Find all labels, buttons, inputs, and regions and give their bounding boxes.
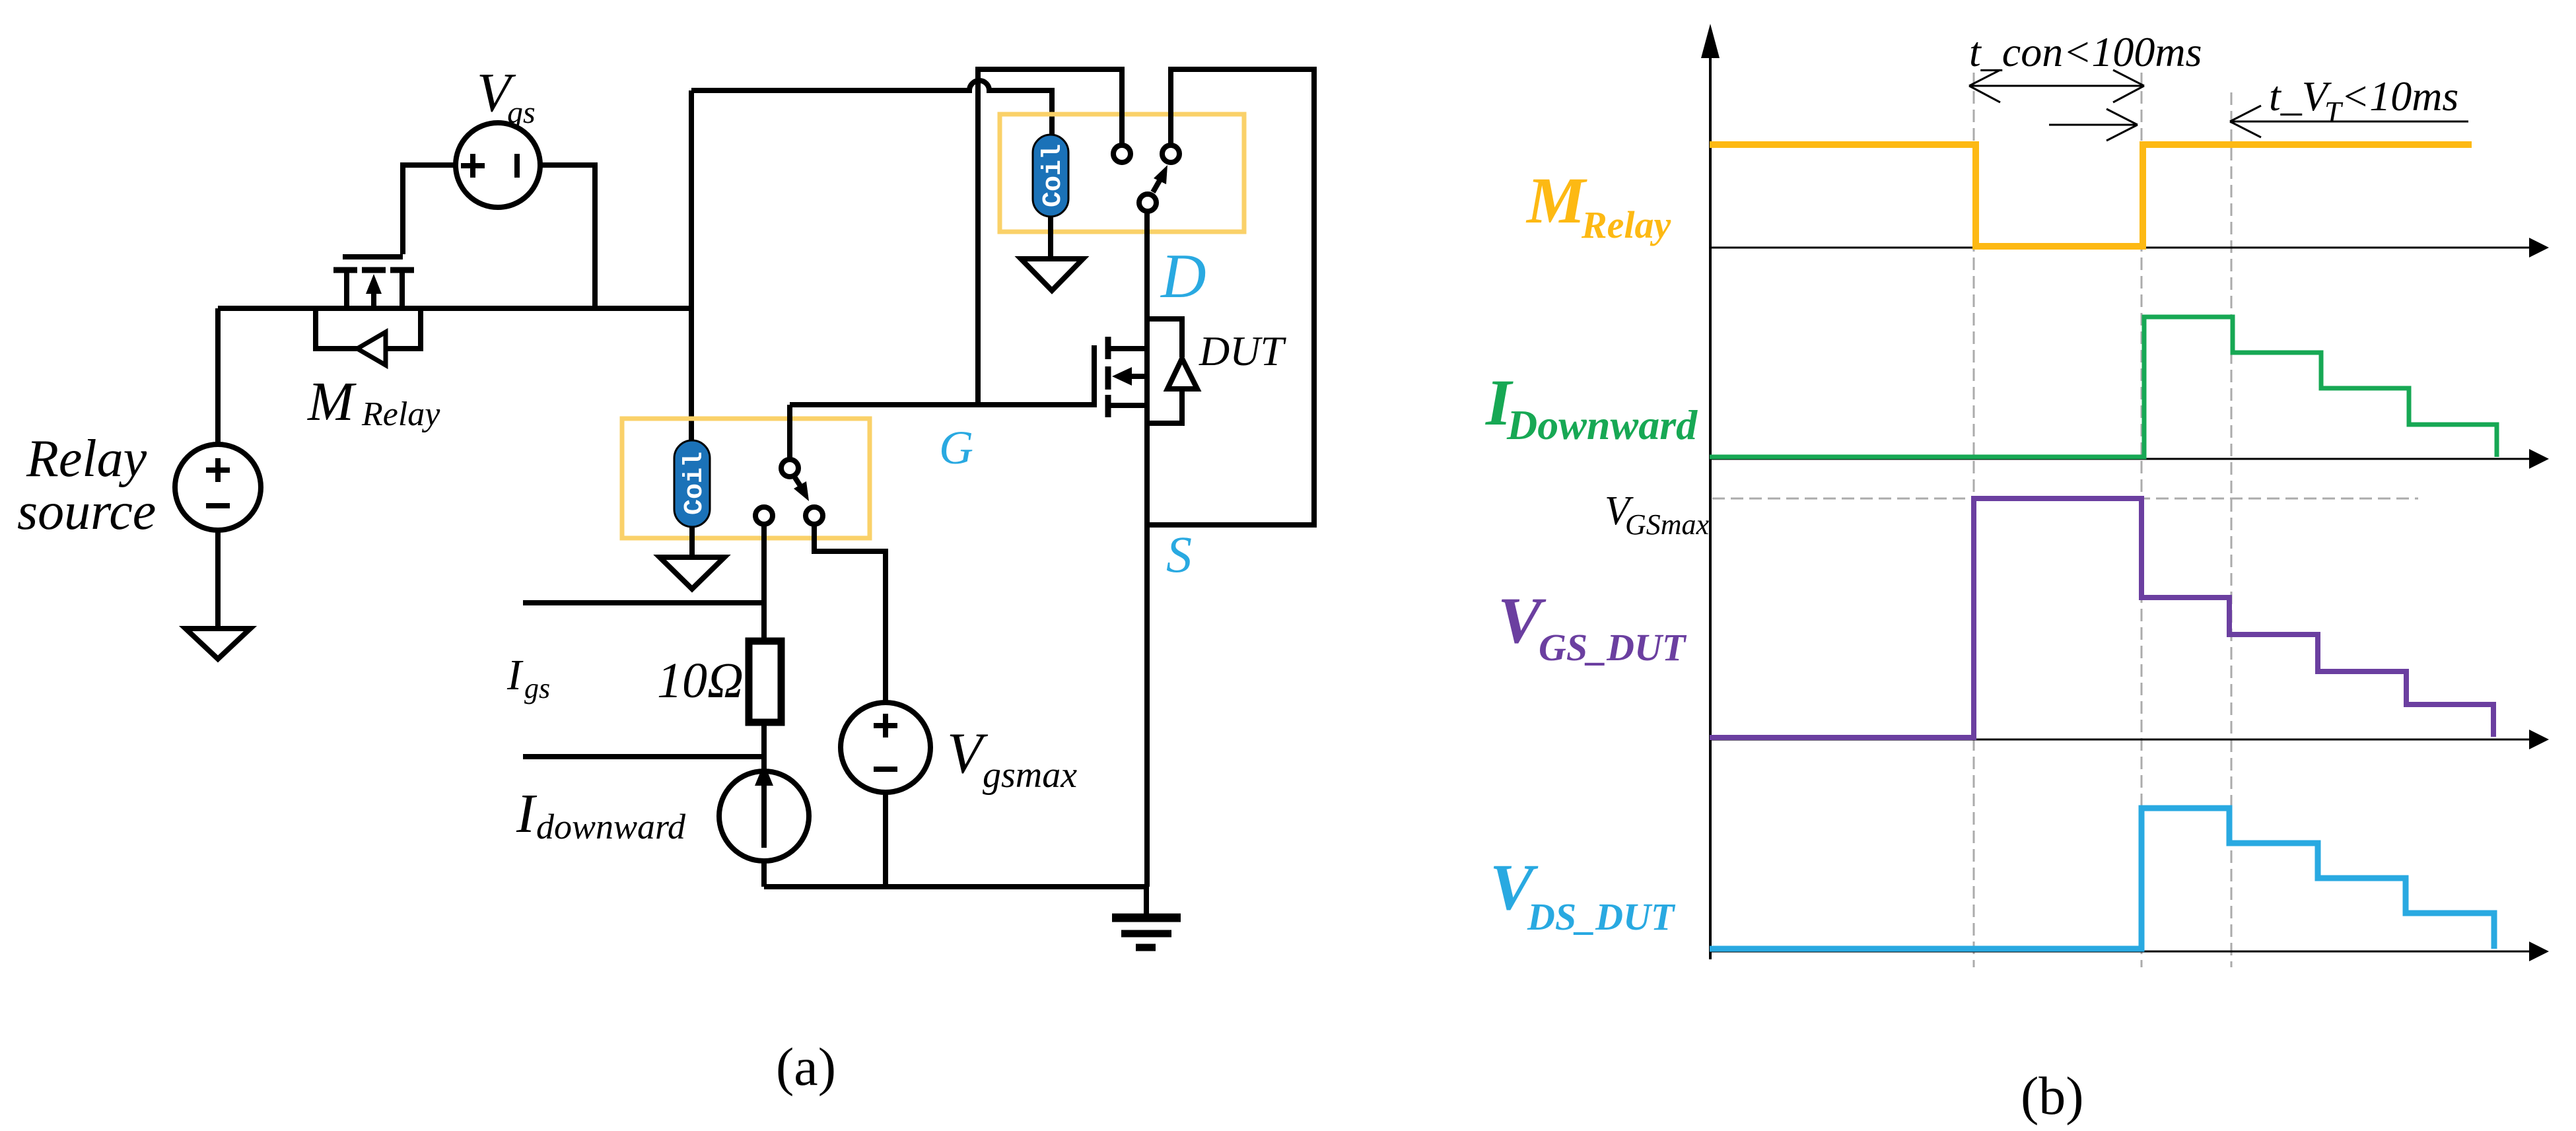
label t_VT<10ms xyxy=(2269,73,2458,129)
transistor Q MRelay body diode xyxy=(316,308,421,365)
transistor DUT source stub xyxy=(1111,403,1147,408)
label IDownward xyxy=(1485,366,1698,448)
label t_VT arrow annotation xyxy=(2230,106,2468,137)
switch TR terminal A xyxy=(1113,145,1131,162)
svg-text:source: source xyxy=(17,483,156,541)
voltage source Vgs xyxy=(456,123,540,207)
wire relay source top lead xyxy=(215,308,221,444)
y axis xyxy=(1701,24,1720,959)
svg-text:M: M xyxy=(307,371,357,432)
dashed vertical t1 xyxy=(1973,73,1975,967)
switch BL arm xyxy=(794,477,809,501)
svg-text:downward: downward xyxy=(536,807,686,846)
axis MRelay xyxy=(1710,238,2549,257)
voltage source Vgsmax xyxy=(841,703,930,792)
switch TR pole C xyxy=(1139,194,1156,211)
svg-text:GS_DUT: GS_DUT xyxy=(1539,626,1687,669)
svg-text:Downward: Downward xyxy=(1506,401,1698,448)
transistor Q MRelay gate xyxy=(343,254,403,259)
svg-text:DS_DUT: DS_DUT xyxy=(1527,895,1676,938)
svg-text:I: I xyxy=(506,651,524,699)
label VGS_DUT xyxy=(1498,584,1687,669)
svg-text:<10ms: <10ms xyxy=(2341,73,2458,120)
svg-text:gsmax: gsmax xyxy=(983,755,1077,796)
ground relay source xyxy=(186,629,250,659)
axis VGS_DUT xyxy=(1710,730,2549,749)
switch TR terminal B xyxy=(1162,145,1179,162)
resistor 10ohm xyxy=(749,641,781,722)
svg-text:Relay: Relay xyxy=(361,395,440,433)
wire top rail with hop to coil TR xyxy=(691,81,1052,135)
wire throw to Vgsmax xyxy=(814,524,886,703)
wire Vgsmax bottom lead xyxy=(883,792,888,887)
label Vgsmax xyxy=(947,722,1077,796)
waveform MRelay xyxy=(1710,145,2472,246)
transistor DUT gate bar xyxy=(1092,345,1097,407)
wire resistor to current source xyxy=(761,722,767,771)
coil BL xyxy=(674,440,710,527)
svg-text:t_V: t_V xyxy=(2269,73,2332,120)
waveform IDownward xyxy=(1710,317,2497,457)
wire terminal A to G column xyxy=(978,69,1122,405)
svg-text:D: D xyxy=(1160,241,1206,311)
transistor Q MRelay channel bars xyxy=(333,267,414,273)
label Idownward xyxy=(516,783,686,846)
svg-text:Relay: Relay xyxy=(26,430,147,488)
svg-text:Relay: Relay xyxy=(1581,203,1671,246)
switch TR arm xyxy=(1153,165,1167,192)
waveform VDS_DUT xyxy=(1710,808,2494,949)
transistor Q MRelay body arrow xyxy=(366,274,382,308)
svg-text:I: I xyxy=(516,783,538,844)
svg-text:S: S xyxy=(1166,526,1192,583)
ground bottom right xyxy=(1112,887,1181,947)
svg-text:Coil: Coil xyxy=(680,452,710,515)
wire Vgs right lead to source rail xyxy=(540,165,595,308)
svg-text:(b): (b) xyxy=(2021,1066,2084,1126)
label t_con arrow annotation xyxy=(1969,70,2144,102)
wire Idownward stub xyxy=(523,754,764,759)
svg-text:G: G xyxy=(939,421,973,474)
dashed vertical t3 xyxy=(2231,92,2233,967)
waveform VGS_DUT xyxy=(1710,498,2493,737)
wire Vgs left lead to gate xyxy=(403,165,456,254)
wire current source to bottom rail xyxy=(761,861,767,887)
ground coil BL xyxy=(660,557,724,589)
svg-text:gs: gs xyxy=(524,672,550,704)
single arrow annotation xyxy=(2049,109,2138,141)
svg-text:10Ω: 10Ω xyxy=(657,653,744,708)
wire relay source bottom lead xyxy=(215,530,221,629)
wire open terminal to resistor xyxy=(761,524,767,641)
coil TR xyxy=(1033,135,1068,217)
switch BL open terminal xyxy=(755,507,773,524)
axis IDownward xyxy=(1710,449,2549,469)
current source Idownward xyxy=(719,763,809,861)
label Relay source xyxy=(17,430,156,541)
wire bottom rail xyxy=(764,884,1146,889)
wire main rail MRelay to coil column xyxy=(218,306,691,311)
wire drain column xyxy=(1144,213,1150,887)
svg-text:(a): (a) xyxy=(776,1037,836,1097)
wire Igs stub xyxy=(523,600,764,605)
wire vertical to coil BL xyxy=(689,90,694,440)
wire coil BL to ground xyxy=(689,527,695,557)
diode DUT body diode xyxy=(1147,319,1197,423)
voltage source Vgs label xyxy=(477,62,536,130)
label MRelay xyxy=(307,371,440,433)
relay box TR xyxy=(1000,114,1244,232)
svg-text:t_con<100ms: t_con<100ms xyxy=(1969,28,2202,75)
wire gate G net xyxy=(790,402,1092,407)
relay box BL xyxy=(622,419,870,538)
ground coil TR xyxy=(1021,259,1083,291)
label VDS_DUT xyxy=(1490,850,1676,938)
dashed vertical t2 xyxy=(2141,73,2143,967)
transistor DUT channel bars xyxy=(1105,337,1111,417)
label Igs xyxy=(506,651,550,704)
voltage source Relay source xyxy=(175,444,261,530)
wire G to switch BL pole xyxy=(787,405,792,459)
switch BL throw terminal xyxy=(806,507,823,524)
transistor DUT drain stub xyxy=(1111,346,1147,351)
label MRelay xyxy=(1525,164,1671,246)
wire coil TR to ground xyxy=(1048,217,1053,259)
transistor Q MRelay drain/source stubs xyxy=(347,270,402,308)
svg-text:DUT: DUT xyxy=(1199,327,1286,374)
axis VDS_DUT xyxy=(1710,942,2549,961)
svg-text:GSmax: GSmax xyxy=(1625,508,1710,541)
wire terminal B sense loop xyxy=(1147,69,1314,525)
label VGSmax level xyxy=(1605,489,1710,541)
dashed VGSmax level line xyxy=(1712,498,2418,500)
switch BL pole xyxy=(781,460,798,477)
transistor DUT body arrow xyxy=(1112,367,1147,386)
svg-text:M: M xyxy=(1525,164,1587,237)
svg-text:Coil: Coil xyxy=(1039,144,1068,207)
